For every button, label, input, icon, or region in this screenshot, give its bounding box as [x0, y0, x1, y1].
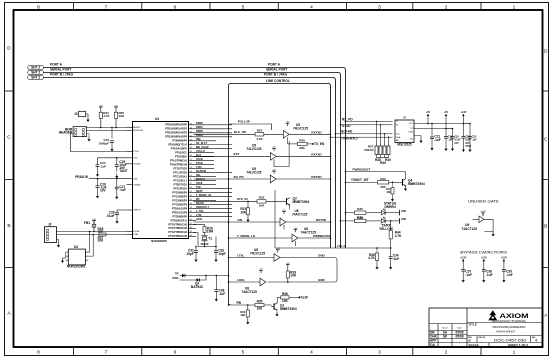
- svg-text:VDDAD: VDDAD: [133, 163, 141, 166]
- svg-text:GND: GND: [318, 254, 326, 258]
- ground R46: [375, 265, 378, 270]
- svg-text:VDD: VDD: [133, 158, 138, 160]
- wire unused gate out loop: [484, 219, 493, 231]
- svg-text:xTAL.O: xTAL.O: [337, 245, 345, 248]
- svg-text:4.7K: 4.7K: [103, 114, 110, 118]
- svg-text:4: 4: [310, 350, 313, 356]
- svg-text:SEL: SEL: [196, 174, 201, 177]
- wire XTAL from U4: [194, 233, 217, 247]
- svg-text:R39: R39: [380, 161, 386, 165]
- off-page flag SHT2 PORT B: [28, 76, 44, 80]
- svg-text:BKGD/MS: BKGD/MS: [133, 130, 144, 132]
- wire ON row: [194, 221, 281, 223]
- svg-text:+3V: +3V: [272, 147, 276, 149]
- svg-text:.1uF: .1uF: [219, 292, 226, 296]
- svg-text:10M: 10M: [207, 230, 214, 234]
- svg-text:+3.3V: +3.3V: [481, 257, 488, 259]
- svg-text:.01uF: .01uF: [106, 214, 114, 218]
- svg-text:B: B: [7, 223, 10, 229]
- ground U7: [414, 135, 421, 137]
- wire Q4 collector: [405, 172, 407, 179]
- resistor R46: [376, 248, 378, 253]
- svg-text:UNUSED GATE: UNUSED GATE: [468, 198, 499, 203]
- capacitor C36: [216, 275, 218, 277]
- svg-text:10V: 10V: [100, 188, 107, 192]
- ground R31: [246, 217, 249, 222]
- svg-text:AXIOM: AXIOM: [500, 313, 529, 320]
- title block left table: [429, 323, 467, 325]
- svg-text:SCALE: SCALE: [469, 343, 479, 347]
- svg-text:PTG4: PTG4: [133, 151, 139, 153]
- ground C32: [194, 257, 197, 262]
- svg-text:PB: PB: [237, 301, 242, 305]
- svg-text:R34: R34: [240, 310, 245, 314]
- wire J2 pins: [57, 231, 127, 233]
- svg-text:KBD0: KBD0: [196, 122, 203, 125]
- svg-text:+5V: +5V: [444, 112, 449, 114]
- svg-text:MB_SALW: MB_SALW: [196, 146, 209, 149]
- svg-text:PTG2/KBIP2: PTG2/KBIP2: [172, 199, 187, 202]
- svg-text:LTCL: LTCL: [196, 166, 203, 169]
- svg-text:10pF: 10pF: [186, 252, 193, 256]
- capacitor C26: [97, 179, 99, 186]
- wire crystal bottom: [204, 241, 206, 247]
- svg-text:Name: Name: [442, 328, 449, 330]
- svg-text:5: 5: [242, 4, 245, 10]
- transistor Q1 MMBT3904: [271, 303, 277, 311]
- wire EXTAL from U4: [194, 225, 205, 227]
- capacitor C33: [215, 247, 217, 251]
- svg-text:BYPASS CAPACITORS: BYPASS CAPACITORS: [460, 251, 507, 255]
- svg-text:B: B: [544, 224, 547, 230]
- wire U6 output: [286, 221, 331, 223]
- resistor R41: [355, 219, 366, 222]
- ground R43: [391, 197, 394, 202]
- resistor R45: [355, 211, 366, 214]
- svg-text:10V: 10V: [454, 142, 459, 145]
- svg-text:PTG3/KBIP3: PTG3/KBIP3: [172, 203, 187, 206]
- resistor R22: [255, 133, 264, 136]
- svg-text:.1uF: .1uF: [506, 273, 513, 277]
- resistor R42: [378, 181, 389, 184]
- wire U8A enable: [295, 241, 297, 246]
- svg-text:VREFH: VREFH: [133, 210, 141, 212]
- wire SCKAD to U7: [336, 133, 393, 135]
- bypass C39: [501, 257, 508, 263]
- svg-text:PTA3/SCL: PTA3/SCL: [175, 151, 187, 154]
- svg-text:RX_PD: RX_PD: [342, 117, 353, 121]
- svg-text:10K: 10K: [240, 210, 247, 214]
- svg-text:PTB3/KBIP3/ADP3: PTB3/KBIP3/ADP3: [165, 135, 187, 138]
- title block line under title: [467, 335, 543, 337]
- svg-text:PTA1/TPMCH1: PTA1/TPMCH1: [170, 159, 188, 162]
- svg-text:PTG0/KBIP0: PTG0/KBIP0: [172, 191, 187, 194]
- svg-text:Y1: Y1: [208, 236, 212, 240]
- svg-text:PTD0/AD1P8: PTD0/AD1P8: [172, 207, 188, 210]
- svg-text:PORT A: PORT A: [50, 62, 63, 66]
- ground J2: [57, 243, 60, 248]
- svg-text:PD: PD: [196, 198, 200, 201]
- svg-text:74ACT125: 74ACT125: [242, 290, 258, 294]
- resistor R25: [114, 105, 118, 110]
- svg-text:MC9S08QG8DEMO: MC9S08QG8DEMO: [493, 325, 527, 329]
- power +5V U7: [426, 112, 431, 118]
- wire enable chain to xtal: [274, 190, 276, 248]
- capacitor C23: [111, 128, 113, 139]
- title block divider vertical: [466, 308, 468, 347]
- svg-text:.1uF: .1uF: [472, 139, 477, 142]
- svg-text:NC: NC: [410, 139, 414, 141]
- svg-text:TXMCT_WT: TXMCT_WT: [351, 178, 369, 182]
- wire U5C output: [276, 178, 330, 180]
- wire pullup top: [229, 124, 272, 130]
- svg-text:1000pF: 1000pF: [99, 142, 110, 146]
- svg-text:LRXL: LRXL: [196, 218, 203, 221]
- svg-text:TXMCRXLT: TXMCRXLT: [341, 137, 358, 141]
- svg-text:GREEN: GREEN: [384, 205, 396, 209]
- svg-text:Date: Date: [457, 327, 462, 330]
- svg-text:TIP: TIP: [175, 273, 179, 276]
- svg-text:PTB0/KBIP0/ADP0: PTB0/KBIP0/ADP0: [165, 124, 187, 127]
- svg-text:PORT A: PORT A: [268, 62, 281, 66]
- wire LRXL row: [229, 281, 261, 283]
- wire bus SERIAL PORT: [44, 73, 341, 249]
- svg-text:RXTXD: RXTXD: [311, 130, 322, 134]
- svg-text:2: 2: [445, 4, 448, 10]
- svg-text:4: 4: [310, 4, 313, 10]
- svg-text:RING: RING: [173, 277, 179, 280]
- svg-text:D: D: [544, 49, 548, 55]
- wire TXMCT: [346, 181, 378, 183]
- svg-text:STX_IN: STX_IN: [237, 197, 248, 201]
- svg-text:IRQ: IRQ: [196, 138, 201, 141]
- ground C34: [389, 265, 392, 270]
- resistor R35: [255, 303, 264, 306]
- svg-text:10K: 10K: [290, 274, 297, 278]
- wires U7 right: [414, 123, 463, 125]
- bypass C37: [460, 257, 467, 263]
- svg-text:T_MODE_LD: T_MODE_LD: [196, 194, 211, 197]
- svg-text:TANT: TANT: [119, 169, 127, 173]
- wire bus LINE CONTROL: [229, 84, 331, 249]
- ground C33: [214, 257, 217, 262]
- svg-text:XTAL.O: XTAL.O: [196, 150, 205, 153]
- IC U4 MC9S08GB60 body: [133, 122, 189, 239]
- capacitor C20: [462, 124, 464, 137]
- svg-text:STA8: STA8: [196, 182, 203, 185]
- IC U4 left pin stubs: [127, 127, 144, 236]
- svg-text:T/W: T/W: [196, 186, 201, 189]
- svg-text:+3V: +3V: [272, 169, 276, 171]
- svg-text:.1uF: .1uF: [486, 273, 493, 277]
- svg-text:MC9S08GB60: MC9S08GB60: [151, 240, 167, 243]
- capacitor C32: [195, 247, 197, 251]
- svg-text:KBD2: KBD2: [196, 130, 203, 133]
- wire TXMCRXLT to U7: [331, 136, 393, 138]
- svg-text:+3.3V: +3.3V: [501, 257, 508, 259]
- resistor R27: [99, 233, 106, 236]
- svg-text:R30: R30: [299, 138, 305, 142]
- capacitor C27: [116, 179, 118, 188]
- power bar D3: [399, 218, 401, 224]
- off-page flag SHT2 SERIAL PORT: [28, 71, 44, 75]
- svg-text:PTB1/KBIP1/ADP1: PTB1/KBIP1/ADP1: [165, 127, 187, 130]
- svg-text:PTF1/TPM1CH3: PTF1/TPM1CH3: [169, 227, 188, 230]
- svg-text:PRAD.W: PRAD.W: [75, 175, 88, 179]
- connector J3: [79, 111, 86, 116]
- svg-text:ON: ON: [238, 218, 243, 222]
- wire txrx led row: [341, 220, 355, 222]
- svg-text:SDA1.3: SDA1.3: [196, 178, 205, 181]
- svg-text:10K: 10K: [98, 238, 105, 242]
- svg-text:SCKAD: SCKAD: [341, 130, 353, 134]
- svg-text:+3V: +3V: [259, 269, 263, 271]
- wire VDD row: [98, 157, 127, 159]
- svg-text:PTC1/RXD2: PTC1/RXD2: [173, 171, 187, 174]
- svg-text:SHT 2: SHT 2: [31, 66, 40, 70]
- resistor R33: [286, 263, 290, 268]
- power +5V caps: [444, 112, 449, 118]
- resistor R36: [277, 296, 281, 298]
- wire PB row: [231, 304, 255, 306]
- wire STXD to U7: [341, 124, 393, 126]
- svg-text:MSC2525: MSC2525: [397, 142, 411, 146]
- svg-text:50KX4: 50KX4: [364, 148, 374, 152]
- wire BDM to MCU: [87, 130, 127, 132]
- svg-text:C: C: [7, 135, 11, 141]
- wire LTXL row: [229, 257, 275, 259]
- svg-text:74LVC125: 74LVC125: [293, 126, 308, 130]
- svg-text:SN_PN: SN_PN: [234, 175, 244, 179]
- svg-text:LTXL: LTXL: [237, 253, 244, 257]
- svg-text:PTF0/TPM1CH2: PTF0/TPM1CH2: [169, 223, 188, 226]
- IC U4 right pin names: [165, 124, 187, 239]
- connector J2: [45, 227, 57, 243]
- wire xtal row: [275, 247, 391, 249]
- svg-text:LINE CONTROL: LINE CONTROL: [266, 79, 290, 83]
- svg-text:RESET*: RESET*: [133, 127, 141, 129]
- svg-text:3: 3: [378, 4, 381, 10]
- diode array D4: [68, 249, 85, 265]
- svg-text:PULLUP: PULLUP: [238, 120, 250, 124]
- title block scale row: [467, 342, 543, 344]
- svg-text:+3V: +3V: [282, 210, 286, 212]
- svg-text:4.7K: 4.7K: [395, 234, 402, 238]
- transistor Q2 MMBT3904: [284, 198, 290, 206]
- svg-text:SHEET 1 OF 2: SHEET 1 OF 2: [508, 343, 528, 347]
- buffer U8A 74ACT125: [294, 228, 298, 233]
- svg-text:TITLE: TITLE: [469, 322, 477, 326]
- wire reset row: [86, 127, 127, 129]
- svg-text:+3V: +3V: [99, 105, 103, 107]
- wire loop GND return: [268, 258, 337, 283]
- resistor R44: [390, 220, 392, 222]
- svg-text:PTC0/TXD2: PTC0/TXD2: [174, 167, 188, 170]
- svg-text:+3V: +3V: [294, 228, 298, 230]
- bypass C38: [481, 257, 488, 263]
- capacitor C18: [452, 129, 454, 137]
- svg-text:MMBT3904: MMBT3904: [280, 307, 297, 311]
- svg-text:R2A/D: R2A/D: [196, 202, 204, 205]
- svg-text:PTD2/KBIP5: PTD2/KBIP5: [173, 215, 188, 218]
- svg-text:VDD: VDD: [401, 210, 406, 213]
- title block outline: [429, 308, 543, 347]
- svg-text:PTC3/SCL1: PTC3/SCL1: [174, 179, 188, 182]
- svg-text:SS_SLCT: SS_SLCT: [196, 142, 208, 145]
- diode Q3 BAT54C second: [180, 279, 197, 281]
- zone row ticks left: [5, 90, 14, 92]
- svg-text:74ACT125: 74ACT125: [461, 227, 477, 231]
- svg-text:6: 6: [174, 4, 177, 10]
- svg-text:4.7K: 4.7K: [256, 137, 263, 141]
- ferrite bead FB1: [92, 219, 96, 224]
- svg-text:EXTAL: EXTAL: [133, 230, 141, 233]
- LED D3 tx/rx yellow: [382, 217, 386, 223]
- svg-text:.1uF: .1uF: [119, 188, 126, 192]
- svg-text:BLE_OE: BLE_OE: [234, 130, 246, 134]
- svg-text:SERIAL PORT: SERIAL PORT: [50, 68, 71, 72]
- svg-text:6: 6: [174, 350, 177, 356]
- svg-text:GND: GND: [318, 278, 326, 282]
- svg-text:RXTXD: RXTXD: [316, 218, 327, 222]
- svg-text:2: 2: [445, 350, 448, 356]
- svg-text:PTC2/SDA1: PTC2/SDA1: [173, 175, 187, 178]
- svg-text:+5V: +5V: [426, 112, 431, 114]
- svg-text:10K: 10K: [259, 203, 265, 207]
- ground C24: [96, 172, 99, 177]
- svg-text:PORT B / JTAG: PORT B / JTAG: [50, 73, 73, 77]
- svg-text:TX_EN: TX_EN: [314, 142, 325, 146]
- svg-text:DWG NO: DWG NO: [479, 337, 486, 339]
- buffer U5A 74LVC125: [286, 122, 290, 127]
- svg-text:D: D: [7, 46, 11, 52]
- ground C20 C22: [462, 147, 465, 152]
- svg-text:.1uF: .1uF: [465, 273, 472, 277]
- svg-text:PWRBOOST: PWRBOOST: [313, 234, 331, 238]
- svg-text:LRXL: LRXL: [237, 278, 245, 282]
- wire T_MODE_LD row: [229, 237, 293, 239]
- svg-text:3: 3: [378, 350, 381, 356]
- svg-text:STAB: STAB: [196, 158, 203, 161]
- wire U6 enable: [283, 225, 285, 230]
- svg-text:10K: 10K: [282, 299, 289, 303]
- svg-text:10K: 10K: [119, 114, 125, 118]
- resistor R28: [203, 227, 206, 233]
- wire D4 to J2 bus: [88, 232, 89, 253]
- svg-text:74LVC125: 74LVC125: [246, 170, 261, 174]
- ground C27: [115, 194, 118, 199]
- svg-text:VSSAD: VSSAD: [133, 183, 141, 186]
- ground C25: [115, 174, 118, 179]
- ground BDM: [87, 133, 89, 135]
- resistor R24: [99, 105, 103, 110]
- svg-text:STXD: STXD: [342, 124, 351, 128]
- svg-text:8: 8: [37, 350, 40, 356]
- svg-text:7: 7: [105, 350, 108, 356]
- wire status led row: [346, 212, 355, 214]
- svg-text:GND: GND: [409, 132, 414, 134]
- wire U5B output: [276, 155, 330, 157]
- svg-text:SHT 2: SHT 2: [31, 71, 40, 75]
- wire enable chain vertical: [288, 141, 290, 167]
- connector J1 BDM header: [73, 127, 87, 137]
- IC U4 right pin stubs and numbers: [188, 123, 194, 237]
- svg-text:PTA0/TPMCH0: PTA0/TPMCH0: [170, 163, 188, 166]
- svg-text:.1uF: .1uF: [393, 257, 400, 261]
- svg-text:+3V: +3V: [286, 122, 290, 124]
- svg-text:0: 0: [536, 339, 538, 343]
- wire SN_PN row: [194, 178, 271, 180]
- svg-text:10K: 10K: [240, 313, 245, 317]
- capacitor C21: [431, 124, 433, 138]
- ground R34: [246, 320, 249, 325]
- svg-text:20K: 20K: [299, 146, 305, 150]
- ground C21: [430, 146, 433, 151]
- svg-text:R32: R32: [259, 196, 265, 200]
- wire RX_PD to U7: [346, 121, 393, 123]
- svg-text:R36: R36: [282, 292, 288, 296]
- svg-text:R41: R41: [357, 216, 363, 220]
- svg-text:.1uF: .1uF: [100, 165, 106, 169]
- ground C28: [115, 219, 118, 224]
- wire STX_IN row: [194, 200, 258, 202]
- svg-text:J2: J2: [48, 223, 52, 227]
- svg-text:RXTXD: RXTXD: [311, 175, 322, 179]
- wire Q2 emitter: [289, 205, 291, 210]
- svg-text:5: 5: [242, 350, 245, 356]
- svg-text:KBD1: KBD1: [196, 126, 203, 129]
- svg-text:PTF3/TPM1CH5: PTF3/TPM1CH5: [169, 235, 188, 238]
- svg-text:10E: 10E: [386, 191, 391, 194]
- svg-text:R40: R40: [385, 158, 391, 162]
- svg-text:MMBT3904: MMBT3904: [408, 182, 425, 186]
- LED D2 status green: [382, 209, 386, 215]
- svg-text:PTB2/KBIP2/ADP2: PTB2/KBIP2/ADP2: [165, 131, 187, 134]
- ground J3: [86, 117, 89, 122]
- svg-text:HEADER: HEADER: [59, 131, 73, 135]
- svg-text:QA: QA: [430, 343, 435, 347]
- wire bus PORT A: [44, 68, 346, 249]
- svg-text:PTA5/IRQ/TCLK: PTA5/IRQ/TCLK: [168, 143, 187, 146]
- svg-text:8: 8: [37, 4, 40, 10]
- svg-text:74LVC125: 74LVC125: [250, 251, 265, 255]
- svg-text:VDD: VDD: [401, 218, 406, 221]
- svg-text:C: C: [544, 137, 548, 143]
- svg-text:PTD1/AD1P9: PTD1/AD1P9: [172, 211, 188, 214]
- capacitor C25: [116, 158, 118, 165]
- svg-text:PTE0/TXD1: PTE0/TXD1: [174, 183, 188, 186]
- svg-text:R42: R42: [380, 177, 386, 181]
- svg-text:T_MODE_LD: T_MODE_LD: [237, 234, 256, 238]
- svg-text:PTA2/SDA: PTA2/SDA: [175, 155, 187, 158]
- svg-text:PTF2/TPM1CH4: PTF2/TPM1CH4: [169, 231, 188, 234]
- wire VSS row: [89, 178, 127, 180]
- svg-text:VCC: VCC: [409, 123, 414, 125]
- svg-text:74LVC125: 74LVC125: [246, 147, 261, 151]
- svg-text:SERIAL PORT: SERIAL PORT: [266, 68, 287, 72]
- svg-text:PWRCPU.7: PWRCPU.7: [196, 206, 210, 209]
- ground Q1: [275, 312, 278, 317]
- svg-text:SDAT: SDAT: [196, 190, 203, 193]
- wire U5A output to bus: [289, 133, 330, 135]
- resistor R30: [288, 143, 298, 145]
- buffer U6 74ACT125 unused: [480, 211, 486, 216]
- svg-text:PORT B / JTAG: PORT B / JTAG: [264, 73, 287, 77]
- zone column ticks top: [72, 3, 74, 11]
- ground D4: [65, 252, 67, 258]
- ground C23: [110, 147, 113, 152]
- svg-text:NUP2202W1: NUP2202W1: [67, 265, 86, 269]
